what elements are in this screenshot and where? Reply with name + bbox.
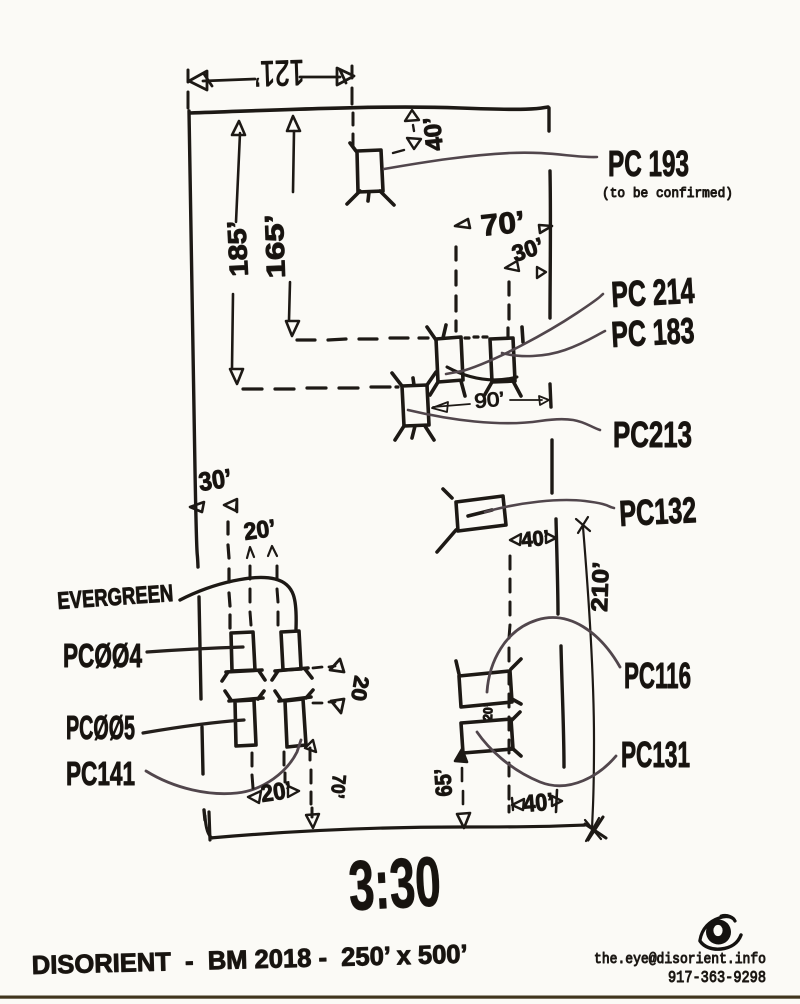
svg-text:20’: 20’: [242, 515, 277, 546]
dashed line 30 drop: [508, 282, 509, 336]
leader EVERGREEN: [180, 578, 296, 629]
svg-text:40’: 40’: [522, 788, 554, 818]
dim 30 left border: [190, 499, 237, 512]
svg-text:121’: 121’: [254, 52, 305, 95]
svg-text:PC131: PC131: [621, 734, 690, 775]
border left line: [189, 111, 198, 567]
dashed line to PC214 (y340): [297, 338, 428, 340]
dashed line to PC213 (y389): [243, 387, 398, 389]
border bottom-right X mark: [585, 817, 606, 840]
svg-text:90’: 90’: [474, 388, 506, 413]
leader PC132: [485, 500, 614, 512]
svg-text:185’: 185’: [221, 220, 254, 277]
dashed vline x249: [250, 566, 251, 625]
svg-text:(to be confirmed): (to be confirmed): [602, 186, 733, 202]
leader PC213: [408, 410, 600, 430]
svg-text:20’: 20’: [259, 777, 293, 808]
dim 30: [505, 261, 546, 278]
svg-text:65’: 65’: [429, 768, 457, 798]
logo eye iris: [706, 920, 731, 945]
svg-text:165’: 165’: [259, 214, 291, 279]
svg-text:30’: 30’: [197, 463, 234, 497]
totem left top cabinet: [222, 632, 265, 681]
leader PC004: [147, 647, 243, 652]
dim 40 under PC132: [510, 533, 556, 545]
svg-text:70’: 70’: [479, 206, 526, 243]
svg-text:PC213: PC213: [613, 414, 692, 455]
dim 20 bottom: [248, 786, 299, 803]
svg-text:210’: 210’: [586, 561, 614, 612]
speaker PC214: [427, 325, 465, 396]
dim 90: [432, 396, 549, 412]
dim 185 vertical: [230, 121, 245, 384]
leader PC141: [146, 740, 301, 794]
dash right of 40: [556, 790, 557, 812]
dim 121 top: [188, 66, 354, 108]
svg-text:PC 193: PC 193: [608, 143, 689, 184]
dim 65 dashed: [455, 749, 470, 828]
dim 40 top: [393, 110, 421, 153]
speaker PC183: [484, 327, 523, 396]
leader PC183: [502, 331, 605, 356]
svg-text:20’: 20’: [480, 704, 496, 722]
svg-text:PCØØ5: PCØØ5: [66, 709, 135, 746]
svg-text:PC132: PC132: [618, 489, 697, 534]
border right line segments: [549, 108, 564, 767]
leader PC214: [446, 294, 603, 374]
logo eye: [700, 915, 741, 949]
dashed vline x277: [277, 566, 278, 625]
svg-text:PC 183: PC 183: [610, 310, 695, 355]
svg-text:20: 20: [346, 674, 373, 702]
border top line: [190, 107, 548, 113]
svg-text:40’: 40’: [520, 527, 550, 552]
dashed vline x284 below totem: [284, 752, 285, 782]
svg-text:917-363-9298: 917-363-9298: [668, 968, 766, 987]
svg-text:PC141: PC141: [66, 755, 135, 792]
dashed vline x228: [228, 522, 230, 628]
border bottom-left corner: [205, 816, 212, 838]
svg-text:the.eye@disorient.info: the.eye@disorient.info: [594, 951, 766, 968]
logo eye pupil: [713, 925, 722, 936]
dim 70: [455, 219, 552, 233]
leader PC116: [487, 618, 620, 692]
dashed vline x252 below totem: [252, 753, 253, 788]
leader PC005: [143, 720, 244, 733]
dim 20 totem right: [313, 659, 344, 713]
speaker PC213: [392, 372, 436, 440]
svg-text:70’: 70’: [326, 774, 349, 800]
border bottom line: [209, 812, 585, 840]
svg-text:40’: 40’: [419, 116, 449, 153]
dotted join between speakers: [465, 337, 487, 338]
svg-text:3:30: 3:30: [347, 842, 443, 925]
dashed drop line above PC193: [352, 113, 355, 147]
dim 165 vertical: [286, 116, 300, 336]
dim 40 bottom: [512, 796, 562, 810]
svg-text:PC116: PC116: [624, 655, 691, 696]
svg-text:PCØØ4: PCØØ4: [63, 637, 142, 674]
scan edge bar: [0, 996, 800, 999]
arc under speakers: [447, 367, 517, 380]
totem right top cabinet: [272, 631, 312, 680]
svg-text:PC 214: PC 214: [610, 270, 695, 315]
border left dashed lower segments: [199, 597, 205, 820]
dim 210 long line: [576, 517, 601, 841]
speaker PC131: [461, 712, 521, 756]
leader PC193: [384, 153, 597, 169]
dashed line 70 drop: [454, 247, 457, 331]
dashed vline x510: [509, 556, 510, 812]
leader PC131: [477, 732, 616, 786]
totem left bottom cabinet: [225, 691, 264, 746]
dim 70 bottom dashed: [310, 748, 312, 817]
speaker PC132: [437, 489, 506, 552]
totem right bottom cabinet: [275, 690, 313, 747]
speaker PC193: [347, 143, 394, 205]
speaker PC116: [456, 659, 521, 707]
